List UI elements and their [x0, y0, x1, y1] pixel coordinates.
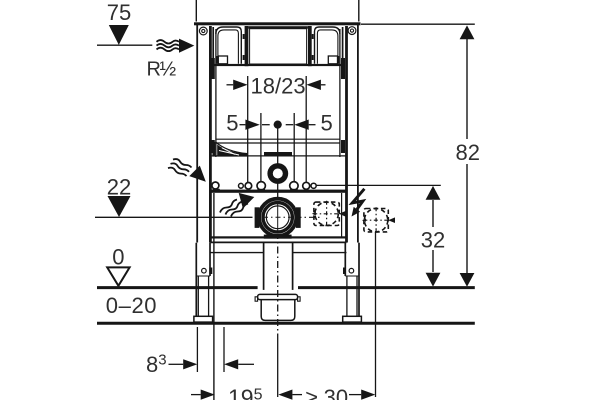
cistern bottom edge — [210, 155, 346, 157]
dimension tick 18/23 left — [247, 76, 249, 182]
knockout K1 dashed circle — [315, 202, 338, 225]
cistern left wall — [215, 29, 217, 157]
cistern wall clip upper-left — [211, 58, 215, 79]
svg-text:≥ 30: ≥ 30 — [306, 385, 349, 400]
svg-text:32: 32 — [421, 228, 445, 253]
dimension 82 — [456, 25, 480, 286]
cistern left ear corner box — [217, 56, 228, 64]
knockout K2 arrow left — [362, 219, 366, 222]
access opening inner frame — [250, 29, 307, 64]
dimension 5 right — [294, 110, 332, 135]
screw head top-right — [348, 27, 356, 35]
knockout K2 crosshair — [363, 207, 389, 233]
reference line at outlet top level — [317, 184, 441, 186]
cistern wall clip lower-left — [211, 140, 215, 153]
level 75 annotation — [97, 0, 152, 45]
flush bend top bar — [264, 152, 292, 157]
svg-text:0–20: 0–20 — [106, 293, 157, 318]
svg-text:195: 195 — [228, 385, 263, 400]
extension line above frame left — [195, 0, 197, 22]
opening clip nub right lower — [312, 55, 314, 60]
dimension 83 ticks — [196, 327, 198, 372]
fixing pedestal mid-left — [257, 189, 265, 193]
svg-text:75: 75 — [107, 0, 131, 25]
fixing pedestal mid-right — [290, 189, 298, 193]
svg-text:0: 0 — [112, 244, 124, 269]
lower zone top band — [210, 190, 346, 193]
connection extension line — [375, 232, 377, 397]
centre dot node — [262, 121, 293, 129]
frame left outer edge — [196, 25, 198, 243]
flush elbow ring — [267, 163, 288, 184]
water squiggle arrow top — [157, 39, 195, 53]
extension line right of cistern — [341, 193, 343, 237]
cistern left ear outline — [216, 27, 241, 64]
screw head top-left — [199, 27, 207, 35]
access opening top bar — [248, 26, 308, 29]
frame bottom crossbar — [210, 236, 346, 238]
knockout K2 arrow right — [388, 217, 395, 223]
water squiggle arrow mid-left — [168, 159, 206, 182]
opening clip nub left upper — [243, 34, 245, 39]
left foot plate — [194, 316, 213, 322]
cistern left ear inner line — [218, 30, 239, 64]
cistern bottom line lower — [216, 142, 340, 144]
left leg — [196, 243, 210, 317]
svg-text:R½: R½ — [147, 58, 177, 80]
knockout K1 arrow left — [312, 212, 316, 215]
extension line above frame right — [358, 0, 360, 22]
cistern right ear corner box — [328, 56, 339, 64]
dimension 18/23 — [227, 74, 326, 99]
floor level line 0 — [97, 286, 258, 289]
svg-text:82: 82 — [456, 140, 480, 165]
vertical centreline — [277, 129, 279, 233]
hatched wedge bracket — [212, 142, 247, 157]
level triangle 22 — [108, 196, 131, 217]
lower floor line — [97, 322, 475, 325]
drain pipe — [264, 243, 293, 290]
cistern right ear inner line — [317, 30, 338, 64]
fixing circle row — [212, 182, 316, 190]
dimension 83 — [146, 352, 254, 378]
knockout K1 dashed square — [314, 202, 339, 225]
lightning bolt — [352, 189, 365, 217]
knockout K1 crosshair — [313, 201, 339, 227]
frame left rail inner bar — [209, 26, 212, 243]
dimension 5 left — [226, 110, 259, 135]
cistern right ear outline — [315, 27, 340, 64]
svg-text:5: 5 — [321, 110, 333, 135]
left leg clamp — [209, 268, 212, 275]
cistern wall clip lower-right — [341, 140, 345, 153]
svg-text:5: 5 — [226, 110, 238, 135]
cistern right wall — [339, 29, 341, 157]
cistern wall clip upper-right — [341, 58, 345, 79]
svg-text:22: 22 — [107, 174, 131, 199]
cistern bottom line upper — [216, 138, 340, 140]
frame right outer edge — [357, 25, 359, 243]
drain elbow — [255, 294, 300, 320]
extension line to bottom dims left — [213, 193, 215, 400]
dimension tick 5 left — [260, 113, 262, 181]
dimension 195 — [191, 385, 263, 400]
dimension 32 — [421, 186, 445, 287]
water squiggle arrow centre — [220, 193, 254, 217]
dimension tick 5 right — [293, 113, 295, 181]
dimension 82 reference line — [361, 23, 475, 25]
access opening left band — [245, 26, 249, 66]
knockout K2 dashed circle — [364, 209, 387, 232]
opening clip nub right upper — [312, 34, 314, 39]
frame top bar — [194, 22, 361, 25]
svg-text:18/23: 18/23 — [251, 74, 306, 99]
frame right rail inner bar — [345, 26, 348, 243]
dimension tick 18/23 right — [305, 76, 307, 182]
fixing pedestal left — [213, 189, 220, 192]
right leg — [345, 243, 359, 317]
level 0 annotation — [107, 244, 129, 286]
level line 22 — [95, 216, 253, 218]
right leg clamp — [343, 268, 346, 275]
waste outlet socket — [255, 199, 301, 239]
opening clip nub left lower — [243, 55, 245, 60]
dimension >=30 — [278, 385, 375, 400]
cistern bottom bar under opening — [213, 64, 342, 66]
access opening right band — [308, 26, 312, 66]
knockout K2 dashed square — [364, 209, 388, 232]
right foot plate — [343, 316, 362, 322]
knockout K1 arrow right — [339, 211, 346, 217]
waste outlet crosshair — [255, 216, 322, 218]
